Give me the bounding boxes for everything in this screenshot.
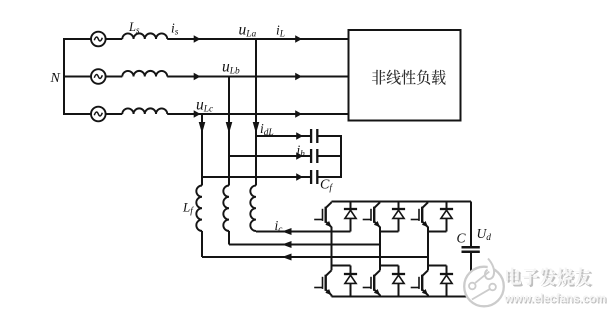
inductor Ls phase c [122, 108, 167, 114]
arrow ic line2 [282, 241, 292, 248]
wire phase a to load [167, 38, 348, 40]
transistor Q6 (bottom IGBT) [427, 266, 429, 271]
wire tap phase c down to filter [201, 114, 203, 186]
wire leg top connector [428, 231, 447, 233]
wire Cf2 to star point [317, 155, 341, 157]
diode D1 (top freewheel) [350, 202, 352, 210]
wire to capacitor Cf1 [256, 135, 311, 137]
wire DC bus right vertical bottom [470, 253, 472, 297]
diode D4 (bottom freewheel) [350, 266, 352, 275]
watermark text elecfans CJK [508, 269, 593, 287]
transistor Q2 (top IGBT leg 2) [379, 201, 381, 204]
wire leg 2 midpoint vertical [379, 232, 381, 266]
wire leg 3 midpoint vertical [427, 232, 429, 266]
arrow iL phase c [295, 110, 302, 118]
wire Cf1 to star point [317, 135, 341, 137]
wire leg bottom connector [380, 265, 399, 267]
wire Cf3 to star point [317, 176, 341, 178]
wire phase c to load [167, 113, 348, 115]
svg-text:N: N [50, 71, 61, 86]
diode D5 (bottom freewheel) [398, 266, 400, 275]
wire coil Lf2 to leg2 midpoint [228, 231, 230, 245]
arrow iL phase a [295, 35, 302, 43]
wire source Va to inductor [106, 38, 123, 40]
wire leg bottom connector [332, 265, 351, 267]
inductor Ls phase a [122, 33, 167, 39]
transistor Q4 (bottom IGBT) [331, 266, 333, 271]
transistor Q3 (top IGBT leg 3) [427, 201, 429, 204]
AC source Vc [91, 107, 106, 122]
arrow ic line3 [282, 254, 292, 261]
arrow into Cf2 [296, 152, 303, 160]
inductor Lf3 [250, 186, 256, 231]
wire tap phase b down to filter [228, 77, 230, 186]
AC source Vb [91, 69, 106, 84]
wire leg top connector [380, 231, 399, 233]
arrow is phase c [194, 110, 201, 118]
wire DC bus right vertical top [470, 202, 472, 247]
diode D6 (bottom freewheel) [446, 266, 448, 275]
wire leg bottom connector [428, 265, 447, 267]
transistor Q5 (bottom IGBT) [379, 266, 381, 271]
capacitor Cf3 [310, 170, 312, 184]
arrow down tap c [199, 122, 206, 134]
arrow down tap a [253, 122, 260, 134]
node N (neutral bus) [63, 39, 65, 114]
wire Cf star bus [340, 135, 342, 178]
arrow is phase b [194, 73, 201, 81]
arrow into Cf3 [296, 173, 303, 181]
wire DC positive rail [332, 201, 472, 203]
capacitor Cf2 [310, 149, 312, 163]
wire to capacitor Cf2 [229, 155, 311, 157]
arrow iL phase b [295, 73, 302, 81]
capacitor Cf1 [310, 129, 312, 143]
label nonlinear load (CJK glyph paths) [372, 70, 446, 85]
diode D2 (top freewheel) [398, 202, 400, 210]
wire tap phase a down to filter [255, 39, 257, 186]
wire leg 1 midpoint vertical [331, 232, 333, 266]
wire coil Lf1 to leg3 midpoint [201, 231, 203, 257]
wire source Vc to inductor [106, 113, 123, 115]
inductor Lf1 [196, 186, 202, 231]
wire N bus to source Vb [63, 76, 91, 78]
wire coil Lf3 to leg1 midpoint [255, 230, 257, 233]
transistor Q1 (top IGBT leg 1) [331, 201, 333, 204]
nonlinear load box [349, 30, 461, 121]
wire N bus to source Vc [63, 113, 91, 115]
arrow is phase a [194, 35, 201, 43]
wire DC negative rail [332, 296, 472, 298]
wire source Vb to inductor [106, 76, 123, 78]
arrow down tap b [226, 122, 233, 134]
arrow into Cf1 [296, 132, 303, 140]
watermark logo circle [464, 259, 504, 307]
wire N bus to source Va [63, 38, 91, 40]
arrow ic line1 [282, 228, 292, 235]
diode D3 (top freewheel) [446, 202, 448, 210]
wire phase b to load [167, 76, 348, 78]
inductor Ls phase b [122, 71, 167, 77]
wire to capacitor Cf3 [202, 176, 311, 178]
svg-text:www.elecfans.com: www.elecfans.com [503, 292, 606, 305]
AC source Va [91, 32, 106, 47]
capacitor C (DC link) [462, 246, 480, 249]
inductor Lf2 [223, 186, 229, 231]
svg-text:C: C [457, 231, 467, 246]
